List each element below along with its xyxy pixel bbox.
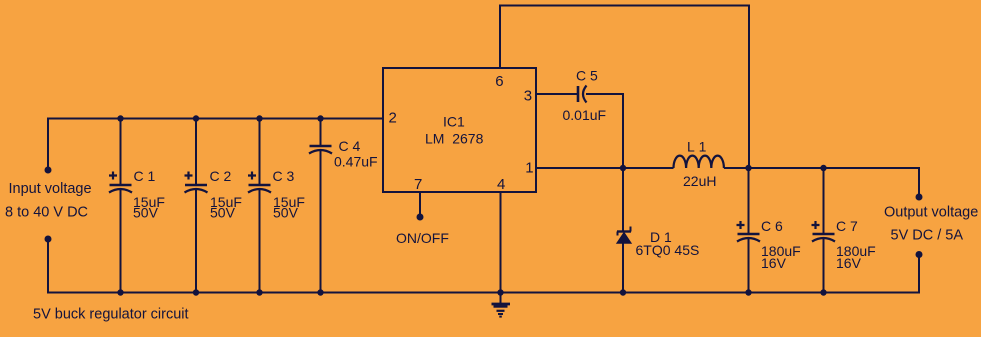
svg-text:1: 1 [525,159,533,176]
svg-text:8 to 40 V DC: 8 to 40 V DC [5,205,88,221]
svg-text:5V buck regulator circuit: 5V buck regulator circuit [33,307,189,323]
svg-text:C 3: C 3 [273,168,295,184]
svg-text:ON/OFF: ON/OFF [396,230,449,246]
svg-text:C 7: C 7 [836,218,858,234]
svg-text:C 4: C 4 [339,138,361,154]
svg-text:L 1: L 1 [687,139,707,155]
svg-text:C 6: C 6 [761,218,783,234]
svg-text:Output voltage: Output voltage [884,204,978,220]
svg-text:6: 6 [495,73,503,90]
svg-text:C 1: C 1 [134,168,156,184]
svg-text:6TQ0 45S: 6TQ0 45S [636,242,700,258]
svg-text:3: 3 [524,87,532,104]
svg-text:C 2: C 2 [210,168,232,184]
svg-text:50V: 50V [273,205,299,221]
svg-text:16V: 16V [836,255,862,271]
svg-text:0.47uF: 0.47uF [334,154,378,170]
svg-text:Input voltage: Input voltage [9,181,92,197]
svg-text:IC1: IC1 [443,114,465,130]
svg-text:0.01uF: 0.01uF [563,107,607,123]
svg-text:7: 7 [414,176,422,193]
svg-text:5V DC / 5A: 5V DC / 5A [891,228,964,244]
svg-text:16V: 16V [761,255,787,271]
svg-text:4: 4 [497,176,505,193]
svg-text:50V: 50V [210,205,236,221]
svg-text:2: 2 [389,110,397,127]
svg-text:LM 2678: LM 2678 [425,131,484,147]
svg-text:50V: 50V [133,205,159,221]
svg-text:22uH: 22uH [683,173,716,189]
svg-text:C 5: C 5 [576,68,598,84]
